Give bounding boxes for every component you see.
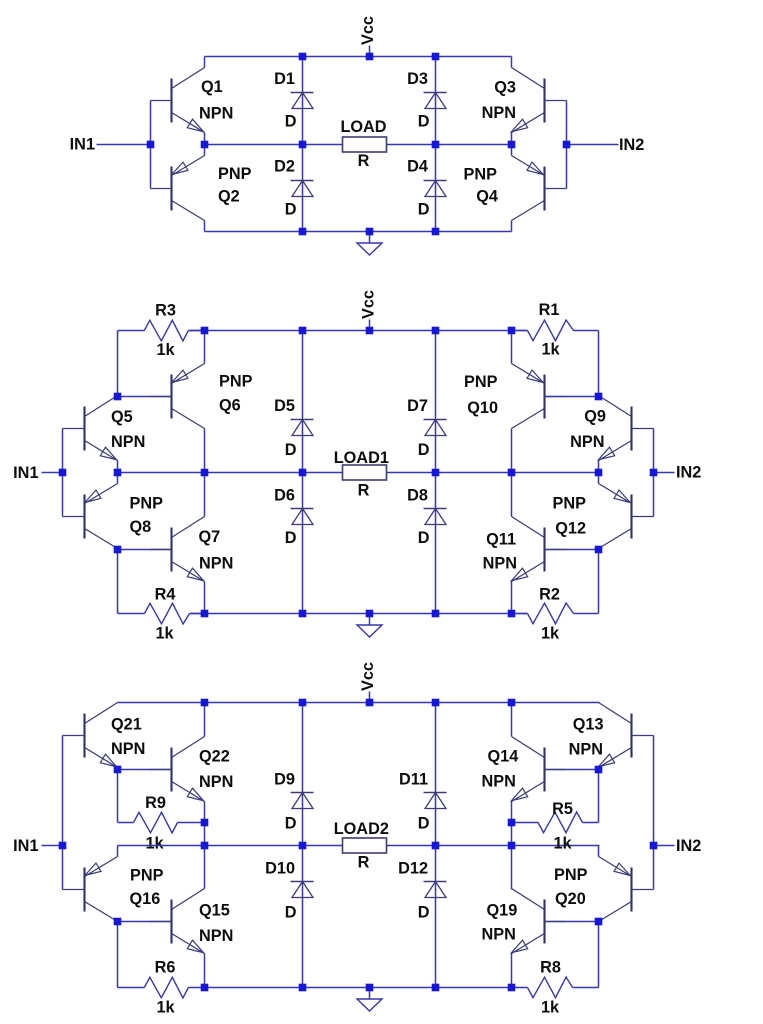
transistor Q22 (NPN) (150, 737, 234, 802)
wire C3 output wire left (118, 845, 343, 847)
wire C3 D11-D12 vertical (435, 703, 437, 988)
svg-text:NPN: NPN (482, 773, 516, 791)
svg-text:R9: R9 (145, 794, 166, 812)
wire C3 right base bracket (653, 736, 655, 890)
wire C2 Q10 collector stub (511, 429, 513, 473)
transistor Q2 (PNP) (151, 156, 252, 221)
resistor R5 1k (512, 800, 599, 853)
diode D12 (398, 860, 446, 922)
transistor Q3 (NPN) (482, 68, 567, 133)
wire C2 output wire right (387, 472, 600, 474)
diode D4 (407, 158, 446, 219)
svg-text:Q8: Q8 (130, 518, 152, 536)
svg-text:Q12: Q12 (555, 520, 586, 538)
svg-text:1k: 1k (541, 625, 560, 643)
transistor Q9 (NPN) (570, 396, 653, 461)
wire C3 Q15 collector stub (204, 846, 206, 889)
junction C3 collector nodes (114, 918, 603, 926)
node IN2 (654, 837, 702, 855)
svg-text:D: D (418, 904, 430, 922)
wire C3 bottom rail (205, 987, 512, 989)
svg-text:Q5: Q5 (111, 408, 133, 426)
svg-text:Q1: Q1 (201, 78, 223, 96)
wire C3 Q15 emitter stub (204, 954, 206, 988)
svg-text:D: D (285, 113, 297, 131)
svg-text:1k: 1k (553, 835, 572, 853)
svg-text:NPN: NPN (111, 433, 145, 451)
svg-text:D: D (285, 529, 297, 547)
junction C2 top rail (201, 327, 516, 335)
svg-text:IN2: IN2 (676, 464, 701, 482)
svg-text:NPN: NPN (199, 555, 233, 573)
svg-text:NPN: NPN (482, 926, 516, 944)
svg-text:NPN: NPN (111, 740, 145, 758)
svg-text:D: D (285, 441, 297, 459)
junction C1 mid row (147, 141, 571, 149)
svg-text:R: R (358, 152, 370, 170)
wire C2 Q5 emitter stub (117, 461, 119, 473)
Vcc power flag (359, 662, 377, 702)
wire C2 Q7 emitter stub (204, 582, 206, 614)
svg-text:PNP: PNP (130, 495, 164, 513)
wire C1 Q4 collector stub (511, 221, 513, 232)
wire C3 Vcc top rail (118, 702, 600, 704)
svg-text:PNP: PNP (218, 165, 252, 183)
wire C1 Q1 collector stub (204, 57, 206, 68)
transistor Q11 (NPN) (483, 517, 567, 582)
svg-text:Q7: Q7 (199, 528, 221, 546)
junction C2 mid row (59, 469, 658, 477)
transistor Q5 (NPN) (63, 396, 146, 461)
load resistor LOAD (340, 118, 386, 170)
transistor Q13 (NPN) (569, 703, 654, 768)
svg-text:Q10: Q10 (467, 399, 498, 417)
svg-text:PNP: PNP (464, 373, 498, 391)
node IN2 (567, 136, 645, 154)
svg-text:PNP: PNP (130, 867, 164, 885)
svg-text:Q16: Q16 (130, 890, 161, 908)
svg-text:R2: R2 (539, 586, 560, 604)
load resistor LOAD1 (334, 449, 389, 500)
svg-text:R3: R3 (155, 302, 176, 320)
wire C2 Q7 collector stub (204, 473, 206, 517)
junction C1 top rail (299, 53, 440, 61)
wire C2 Q6 base wire (118, 396, 173, 398)
load resistor LOAD2 (334, 820, 389, 872)
transistor Q21 (NPN) (63, 703, 146, 768)
diode D2 (274, 158, 313, 219)
svg-text:NPN: NPN (199, 773, 233, 791)
transistor Q7 (NPN) (150, 517, 234, 582)
svg-text:Q6: Q6 (219, 397, 241, 415)
svg-text:Q2: Q2 (218, 188, 240, 206)
svg-text:IN2: IN2 (676, 837, 701, 855)
wire C3 Q14 emitter to output (511, 823, 513, 846)
junction C3 mid row (59, 842, 658, 850)
svg-text:PNP: PNP (219, 373, 253, 391)
transistor Q12 (PNP) (553, 484, 654, 549)
wire C2 Q9 emitter stub (598, 461, 600, 473)
wire C1 Q3 collector stub (511, 57, 513, 68)
wire C3 Q13-Q14 node wires (545, 770, 599, 823)
svg-text:D: D (285, 904, 297, 922)
wire C1 left base bracket (150, 101, 152, 189)
wire C2 Q11 collector stub (511, 473, 513, 517)
wire C1 output wire left (205, 144, 343, 146)
svg-text:Q15: Q15 (199, 902, 230, 920)
resistor R6 1k (118, 959, 205, 1017)
node IN2 (654, 464, 702, 482)
wire C2 R3 to Q5 collector (117, 331, 119, 397)
wire C2 bottom rail (190, 613, 528, 615)
wire C2 left base bracket (62, 429, 64, 517)
resistor R3 1k (118, 302, 205, 360)
svg-text:LOAD: LOAD (340, 118, 386, 136)
wire C1 Q3 emitter stub (511, 133, 513, 145)
wire C1 Q2 collector stub (204, 221, 206, 232)
svg-text:NPN: NPN (482, 104, 516, 122)
resistor R8 1k (512, 959, 599, 1017)
wire C1 right base bracket (566, 101, 568, 189)
wire C2 Q8 emitter stub (117, 473, 119, 484)
wire C1 Q1 emitter stub (204, 133, 206, 145)
svg-text:Q20: Q20 (555, 890, 586, 908)
resistor R2 1k (512, 586, 599, 643)
wire C2 Q11 emitter stub (511, 582, 513, 614)
ground (357, 232, 382, 256)
wire C1 bottom rail (205, 231, 512, 233)
svg-text:Q4: Q4 (476, 188, 498, 206)
wire C3 Q19 collector stub (511, 846, 513, 890)
svg-text:D11: D11 (399, 771, 428, 789)
diode D6 (274, 487, 313, 548)
svg-text:Q13: Q13 (573, 716, 604, 734)
diode D10 (265, 860, 313, 922)
wire C2 R1 to Q9 collector (598, 331, 600, 397)
svg-text:IN1: IN1 (70, 136, 95, 154)
wire C3 Q20 collector node wires (545, 922, 599, 988)
svg-text:PNP: PNP (464, 166, 498, 184)
svg-text:D1: D1 (274, 70, 295, 88)
resistor R1 1k (512, 301, 599, 359)
transistor Q4 (PNP) (464, 156, 567, 221)
transistor Q6 (PNP) (150, 364, 253, 429)
wire C1 Q4 emitter stub (511, 145, 513, 156)
junction C3 bottom rail (201, 984, 516, 992)
svg-text:D: D (418, 201, 430, 219)
wire C3 Q16 collector node wires (118, 922, 173, 988)
svg-text:D: D (418, 529, 430, 547)
svg-text:NPN: NPN (569, 741, 603, 759)
wire C3 Q13 emitter stub (598, 768, 600, 770)
svg-text:Q21: Q21 (111, 716, 142, 734)
wire C2 Q10 base wire (545, 396, 599, 398)
svg-text:NPN: NPN (199, 927, 233, 945)
svg-text:R4: R4 (155, 586, 176, 604)
junction C1 bottom rail (299, 228, 440, 236)
svg-text:Q9: Q9 (584, 408, 606, 426)
transistor Q14 (NPN) (482, 737, 567, 802)
svg-text:D7: D7 (407, 397, 428, 415)
wire C3 Q22 collector stub (204, 703, 206, 737)
junction C2 collector nodes (114, 393, 603, 554)
junction C3 top rail (201, 699, 516, 707)
resistor R9 1k (118, 794, 205, 853)
wire C2 Q6 collector stub (204, 429, 206, 473)
Vcc power flag (359, 290, 377, 330)
svg-text:D10: D10 (265, 860, 295, 878)
svg-text:IN2: IN2 (619, 136, 644, 154)
wire C2 output wire left (118, 472, 343, 474)
svg-text:D: D (418, 815, 430, 833)
svg-text:IN1: IN1 (13, 837, 38, 855)
diode D11 (399, 771, 446, 833)
wire C3 Q19 emitter stub (511, 954, 513, 988)
node IN1 (13, 837, 62, 855)
junction C2 bottom rail (201, 610, 516, 618)
svg-text:R1: R1 (539, 301, 560, 319)
wire C3 Q21-Q22 node wires (118, 770, 173, 823)
diode D5 (274, 397, 313, 459)
wire C1 Vcc top rail (205, 56, 512, 58)
wire C2 Q12 emitter stub (598, 473, 600, 484)
svg-text:D5: D5 (274, 397, 295, 415)
svg-text:R6: R6 (155, 959, 176, 977)
svg-text:NPN: NPN (570, 433, 604, 451)
svg-text:D9: D9 (274, 771, 295, 789)
svg-text:1k: 1k (156, 999, 175, 1017)
wire C3 Q14 emitter stub (511, 802, 513, 823)
svg-text:1k: 1k (541, 999, 560, 1017)
transistor Q1 (NPN) (151, 68, 234, 133)
svg-text:PNP: PNP (554, 866, 588, 884)
transistor Q8 (PNP) (63, 484, 164, 549)
svg-text:PNP: PNP (553, 495, 587, 513)
svg-text:D8: D8 (407, 487, 428, 505)
svg-text:D: D (418, 113, 430, 131)
svg-text:Q3: Q3 (494, 79, 516, 97)
svg-text:R8: R8 (540, 959, 561, 977)
diode D8 (407, 487, 446, 548)
svg-text:Vcc: Vcc (359, 662, 377, 691)
svg-text:1k: 1k (541, 341, 560, 359)
wire C3 D9-D10 vertical (302, 703, 304, 988)
wire C2 D5-D6 vertical (302, 331, 304, 614)
svg-text:D2: D2 (274, 158, 295, 176)
diode D1 (274, 70, 313, 131)
wire C3 output wire right (387, 845, 600, 847)
ground (357, 988, 382, 1012)
wire C2 D7-D8 vertical (435, 331, 437, 614)
transistor Q20 (PNP) (554, 857, 654, 922)
Vcc power flag (359, 16, 377, 56)
svg-text:1k: 1k (155, 625, 174, 643)
wire C1 Q2 emitter stub (204, 145, 206, 156)
transistor Q19 (NPN) (482, 889, 567, 954)
node IN1 (70, 136, 151, 154)
wire C1 output wire right (387, 144, 512, 146)
svg-text:D: D (418, 441, 430, 459)
wire C2 Vcc top rail (189, 330, 528, 332)
svg-text:1k: 1k (145, 835, 164, 853)
svg-text:R5: R5 (552, 800, 573, 818)
wire C2 right base bracket (653, 429, 655, 517)
junction C3 darlington nodes (114, 766, 603, 827)
wire C3 left base bracket (62, 736, 64, 890)
svg-text:D3: D3 (407, 70, 428, 88)
svg-text:NPN: NPN (483, 555, 517, 573)
transistor Q10 (PNP) (464, 364, 566, 429)
svg-text:Q14: Q14 (488, 748, 519, 766)
svg-text:Q22: Q22 (199, 748, 230, 766)
resistor R4 1k (118, 586, 205, 643)
wire C1 D1-D2 vertical (302, 57, 304, 232)
svg-text:Q11: Q11 (486, 531, 516, 549)
wire C3 Q22 emitter to output (204, 823, 206, 846)
wire C3 Q21 emitter stub (117, 768, 119, 770)
wire C2 Q6 emitter stub (204, 331, 206, 364)
svg-text:D12: D12 (398, 860, 428, 878)
transistor Q16 (PNP) (63, 857, 164, 922)
wire C2 Q10 emitter stub (511, 331, 513, 364)
svg-text:LOAD1: LOAD1 (334, 449, 389, 467)
svg-text:Q19: Q19 (487, 902, 518, 920)
wire C3 Q16 emitter stub (117, 846, 119, 857)
svg-text:1k: 1k (156, 341, 175, 359)
wire C3 Q14 collector stub (511, 703, 513, 737)
svg-text:Vcc: Vcc (359, 16, 377, 45)
wire C1 D3-D4 vertical (435, 57, 437, 232)
svg-text:LOAD2: LOAD2 (334, 820, 389, 838)
transistor Q15 (NPN) (150, 889, 234, 954)
svg-text:IN1: IN1 (13, 464, 38, 482)
svg-text:D4: D4 (407, 158, 428, 176)
svg-text:R: R (358, 482, 370, 500)
svg-text:D: D (285, 201, 297, 219)
svg-text:Vcc: Vcc (359, 290, 377, 319)
diode D7 (407, 397, 446, 459)
wire C3 Q22 emitter stub (204, 802, 206, 823)
wire C2 Q8 collector node wires (118, 550, 173, 614)
svg-text:D: D (285, 815, 297, 833)
wire C2 Q12 collector node wires (545, 550, 599, 614)
diode D3 (407, 70, 446, 131)
wire C3 Q20 emitter stub (598, 846, 600, 857)
svg-text:D6: D6 (274, 487, 295, 505)
diode D9 (274, 771, 313, 833)
svg-text:R: R (358, 854, 370, 872)
ground (357, 614, 382, 638)
node IN1 (13, 464, 62, 482)
svg-text:NPN: NPN (199, 105, 233, 123)
